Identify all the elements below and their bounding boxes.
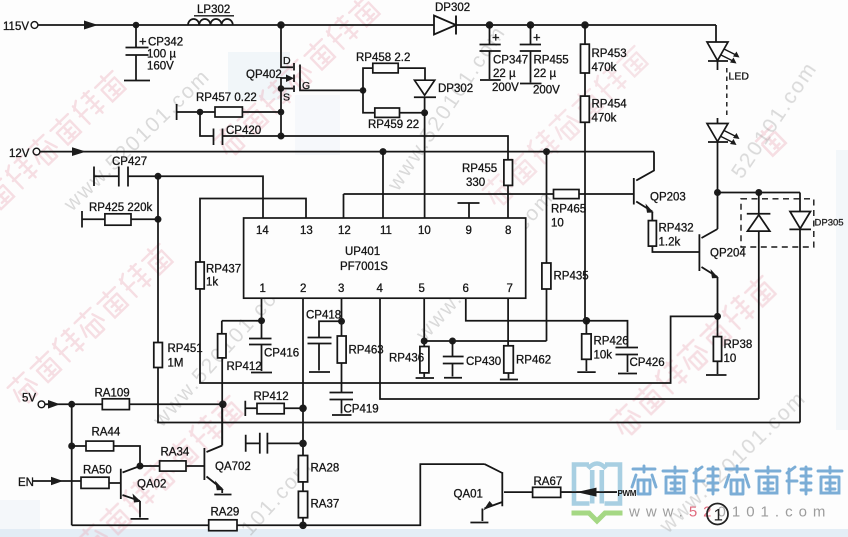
wire pin 3 column: [341, 298, 343, 336]
wire 12V rail: [40, 147, 654, 156]
node 5V branch: [68, 401, 75, 408]
svg-text:RA34: RA34: [161, 447, 190, 459]
node pin5 / RP436: [421, 338, 428, 345]
wire RP435 bottom to CP430 line: [546, 289, 548, 341]
svg-text:RP459 22: RP459 22: [368, 119, 419, 131]
resistor RP455 330: [462, 160, 513, 189]
wire RP454 down to RP426 node: [584, 122, 586, 320]
LED D2: [707, 118, 740, 193]
svg-text:RP451: RP451: [168, 343, 203, 355]
resistor RP462: [500, 346, 551, 380]
svg-text:5V: 5V: [22, 393, 36, 405]
wire RP451 bottom to diode return line: [158, 368, 800, 423]
wire pin 4 to DP305a return: [380, 298, 759, 399]
svg-text:22 µ: 22 µ: [493, 68, 516, 80]
svg-text:7: 7: [507, 283, 513, 295]
wire EN input: [18, 477, 81, 489]
node pin3 / CP418: [338, 318, 345, 325]
svg-text:115V: 115V: [3, 21, 29, 33]
svg-text:PF7001S: PF7001S: [340, 261, 388, 273]
transistor QA702: [204, 404, 250, 494]
capacitor CP347 22u 200V: [480, 25, 529, 94]
resistor RA50: [81, 465, 120, 489]
svg-text:QA02: QA02: [137, 479, 166, 491]
svg-text:D: D: [283, 55, 291, 67]
svg-text:10: 10: [418, 225, 431, 237]
svg-text:CP430: CP430: [466, 356, 501, 368]
svg-text:13: 13: [300, 225, 313, 237]
svg-text:10k: 10k: [594, 350, 613, 362]
resistor RA37: [298, 491, 339, 517]
node RP455 cap top: [527, 21, 535, 29]
svg-text:RP436: RP436: [389, 353, 424, 365]
resistor RA109: [95, 388, 130, 410]
svg-text:CP419: CP419: [344, 404, 379, 416]
resistor RP465 10: [551, 190, 586, 230]
resistor RP432 1.2k: [648, 221, 693, 249]
node 12V/pin11 junction: [380, 148, 387, 155]
wire pin 6 to RP426 node: [466, 298, 587, 321]
resistor RP457 0.22: [177, 92, 281, 120]
transistor QP402 (MOSFET): [246, 25, 363, 104]
wire pin 13 to RP437: [200, 199, 306, 263]
svg-text:1k: 1k: [206, 277, 218, 289]
svg-text:CP426: CP426: [630, 357, 665, 369]
resistor RP412 (vertical): [218, 321, 262, 446]
resistor RP458 2.2: [356, 52, 425, 90]
svg-text:100 µ: 100 µ: [147, 49, 176, 61]
svg-text:RP462: RP462: [516, 355, 551, 367]
dashed box DP305: [741, 199, 844, 247]
svg-text:DP305: DP305: [815, 218, 844, 229]
node RP453 top: [581, 21, 589, 29]
svg-text:RP454: RP454: [592, 99, 628, 111]
svg-text:3: 3: [338, 283, 344, 295]
capacitor CP426: [586, 321, 664, 374]
svg-text:RA29: RA29: [211, 507, 240, 519]
svg-text:10: 10: [551, 218, 564, 230]
svg-text:RA67: RA67: [534, 476, 563, 488]
svg-text:RP465: RP465: [551, 204, 586, 216]
IC UP401 PF7001S: [244, 218, 526, 298]
svg-text:RP432: RP432: [659, 223, 694, 235]
svg-text:RP435: RP435: [554, 271, 589, 283]
resistor RA67: [533, 476, 617, 497]
resistor RA28: [298, 456, 339, 482]
diode DP302 (rail rectifier): [434, 2, 470, 35]
svg-text:RA37: RA37: [311, 499, 340, 511]
svg-text:LP302: LP302: [197, 4, 230, 16]
svg-text:CP416: CP416: [264, 348, 299, 360]
node QP204 emitter / RP38 top: [714, 313, 721, 320]
svg-text:22 µ: 22 µ: [534, 68, 557, 80]
wire pin 14 to CP427 node: [158, 176, 263, 218]
capacitor RP455 22u 200V: [520, 25, 569, 97]
svg-text:RP412: RP412: [227, 361, 262, 373]
resistor RA44: [72, 427, 140, 467]
wire 5V branch down: [71, 404, 73, 525]
wire pin 1: [261, 298, 263, 321]
svg-text:RA109: RA109: [95, 388, 130, 400]
transistor QP204: [699, 193, 746, 317]
wire 5V line: [45, 400, 223, 409]
node cap/RA28 junction: [299, 440, 307, 448]
node QP204 collector / LED bottom: [714, 189, 721, 196]
node RP425 right: [155, 216, 162, 223]
node pin2/RP412h junction: [299, 405, 307, 413]
svg-text:5: 5: [419, 283, 425, 295]
node QA702 collector top: [219, 401, 227, 409]
node pin1 junction: [258, 317, 265, 324]
svg-text:CP420: CP420: [226, 125, 261, 137]
resistor RP412 (horizontal): [245, 391, 303, 416]
wire LED dashed continuation: [726, 68, 728, 119]
svg-text:4: 4: [377, 283, 384, 295]
wire QP402 gate node: [360, 87, 367, 94]
svg-text:RP455: RP455: [534, 55, 569, 67]
node QP402 source: [278, 85, 285, 92]
svg-text:QP204: QP204: [710, 248, 746, 260]
svg-text:200V: 200V: [533, 85, 560, 97]
resistor RP453 470k: [581, 25, 627, 74]
capacitor CP419: [330, 363, 379, 416]
diode DP305b (down): [789, 193, 811, 423]
svg-text:CP347: CP347: [493, 55, 528, 67]
node QA02 collector: [137, 463, 144, 470]
svg-text:+: +: [139, 34, 147, 49]
svg-text:330: 330: [466, 177, 485, 189]
node CP430 top: [449, 338, 456, 345]
capacitor CP416: [249, 321, 299, 373]
resistor RP38 10: [706, 316, 752, 375]
svg-text:8: 8: [505, 225, 511, 237]
capacitor CP418: [306, 310, 342, 373]
node RA37 bottom: [299, 522, 307, 530]
node 115V input terminal: [3, 21, 38, 33]
wire 115V rail: [38, 21, 716, 43]
svg-text:1: 1: [260, 283, 266, 295]
node RP457 left / CP420 tap: [197, 109, 204, 116]
svg-text:RP453: RP453: [592, 48, 627, 60]
svg-text:RP463: RP463: [349, 345, 384, 357]
svg-text:RP426: RP426: [594, 336, 629, 348]
wire RP437 bottom routing to QP204 emitter node: [200, 289, 718, 383]
wire pin 5: [423, 298, 425, 346]
svg-text:RA50: RA50: [83, 465, 112, 477]
svg-text:+: +: [533, 30, 541, 45]
svg-text:CP418: CP418: [306, 310, 341, 322]
svg-text:+: +: [492, 30, 500, 45]
node RP426 top: [583, 317, 591, 325]
svg-text:160V: 160V: [147, 61, 174, 73]
svg-text:RP412: RP412: [254, 391, 289, 403]
wire pin 2 column: [302, 298, 304, 525]
wire QP402 source to RP457/CP420: [280, 89, 282, 137]
node RA44 left: [68, 443, 75, 450]
wire CP420 node to RP455-330 column: [281, 136, 508, 160]
wire bottom return: [72, 464, 485, 525]
inductor LP302: [188, 4, 234, 25]
svg-text:470k: 470k: [592, 113, 617, 125]
node CP342 junction: [133, 22, 140, 29]
wire PWM arrow: [561, 488, 637, 498]
diode DP302 (gate zener): [414, 80, 473, 113]
node CP420 right: [278, 133, 285, 140]
svg-text:DP302: DP302: [438, 83, 473, 95]
svg-text:12: 12: [338, 225, 351, 237]
svg-text:LED: LED: [729, 71, 750, 83]
svg-text:RP437: RP437: [206, 264, 241, 276]
svg-text:1.2k: 1.2k: [659, 237, 681, 249]
resistor RA29: [209, 507, 240, 531]
LED D1: [707, 42, 749, 83]
svg-text:DP302: DP302: [435, 2, 470, 14]
capacitor CP430: [443, 341, 501, 378]
svg-text:CP342: CP342: [148, 37, 183, 49]
svg-text:12V: 12V: [9, 148, 30, 160]
svg-text:1M: 1M: [168, 358, 184, 370]
node 12V/RP435 junction: [543, 148, 550, 155]
svg-text:RP457 0.22: RP457 0.22: [196, 92, 257, 104]
transistor QA01: [454, 464, 533, 522]
wire base line pin12 to QP203: [344, 193, 634, 195]
resistor RP425 220k: [82, 202, 158, 228]
wire RP432 to QP204 base: [652, 246, 699, 252]
svg-text:RP425 220k: RP425 220k: [89, 202, 153, 214]
wire collector node to DP305: [718, 192, 801, 194]
svg-text:PWM: PWM: [618, 489, 637, 498]
capacitor CP342 100u 160V: [124, 25, 183, 81]
resistor RA34: [140, 447, 204, 472]
svg-text:S: S: [283, 92, 290, 104]
wire CP427 node down to RP451: [157, 176, 159, 342]
svg-text:QA702: QA702: [215, 461, 251, 473]
wire pin 12: [343, 194, 345, 218]
resistor RP459 22: [363, 90, 425, 131]
transistor QA02: [121, 466, 167, 519]
node CP427 right: [155, 173, 162, 180]
node CP347 top: [486, 21, 494, 29]
resistor RP454 470k: [581, 73, 628, 125]
svg-text:9: 9: [466, 225, 472, 237]
transistor QP203: [634, 152, 686, 221]
resistor RP437 1k: [196, 262, 241, 289]
resistor RP426 10k: [577, 321, 628, 372]
node RP457 right: [278, 109, 285, 116]
svg-text:14: 14: [256, 225, 269, 237]
wire RP455-330 bottom / pin 8: [507, 185, 509, 218]
svg-text:RP38: RP38: [724, 339, 753, 351]
svg-text:QP203: QP203: [650, 192, 686, 204]
wire pin10 column: [424, 113, 426, 218]
svg-text:UP401: UP401: [345, 246, 380, 258]
node 12V input terminal: [9, 148, 40, 160]
svg-text:1: 1: [714, 506, 723, 525]
svg-text:200V: 200V: [492, 82, 519, 94]
svg-text:QP402: QP402: [246, 69, 282, 81]
svg-text:RP455: RP455: [462, 163, 497, 175]
svg-text:11: 11: [380, 225, 392, 237]
svg-text:470k: 470k: [592, 62, 617, 74]
resistor RP463: [337, 336, 383, 363]
wire 12V node down through RP435: [546, 152, 548, 263]
wire pin 9 stub terminal: [458, 203, 480, 218]
capacitor CP420: [200, 112, 281, 145]
node RP459 right / pin10 column: [421, 109, 428, 116]
svg-text:RA28: RA28: [311, 463, 340, 475]
wire pin 7: [507, 298, 509, 346]
svg-text:6: 6: [463, 283, 469, 295]
svg-text:QA01: QA01: [454, 489, 483, 501]
node DP305 first diode top: [755, 189, 762, 196]
svg-text:EN: EN: [18, 477, 34, 489]
svg-text:CP427: CP427: [112, 156, 147, 168]
svg-text:2: 2: [300, 283, 306, 295]
svg-text:RP458 2.2: RP458 2.2: [356, 52, 410, 64]
node QP402 drain junction: [277, 21, 285, 29]
resistor RP451 1M: [154, 343, 203, 370]
resistor RP435: [542, 263, 589, 289]
wire pin5 to CP430 and RP435 column: [424, 340, 546, 342]
svg-text:G: G: [302, 80, 310, 92]
wire pin 11 to 12V rail: [382, 152, 384, 218]
svg-text:10: 10: [724, 353, 737, 365]
svg-text:RA44: RA44: [92, 427, 121, 439]
capacitor (unmarked): [246, 433, 303, 454]
svg-text:www.520101.com: www.520101.com: [628, 504, 831, 521]
resistor RP436: [389, 347, 434, 379]
capacitor CP427: [94, 156, 158, 187]
diode DP305a (up): [747, 193, 771, 400]
node 5V input terminal: [22, 393, 45, 408]
